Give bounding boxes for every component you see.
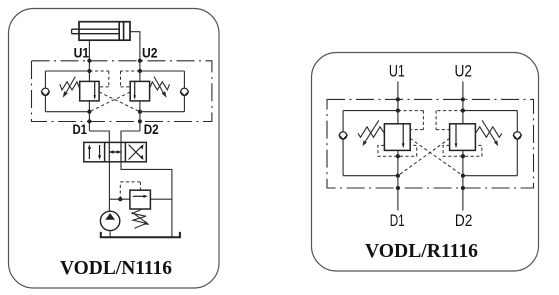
valve block dash-dot boundary right (327, 99, 534, 188)
wire cylinder cap to U2 (130, 32, 140, 61)
check valve CV1 (41, 88, 50, 96)
wire D2 to valve port B (121, 131, 140, 142)
junction dots left diagram (87, 59, 142, 124)
valve V2 spring (150, 82, 170, 90)
DV1 left cell up arrow (88, 144, 91, 159)
svg-text:D2: D2 (455, 212, 473, 230)
DV1 centre cell bar (109, 142, 121, 161)
check-valve loop bottom rail right (343, 175, 398, 177)
wire P branch to relief valve (109, 198, 129, 200)
valve V1 pilot line dashed (89, 71, 108, 87)
svg-text:U2: U2 (142, 44, 158, 60)
svg-text:U1: U1 (389, 62, 405, 80)
valve V4 drain box dashed (443, 145, 482, 156)
valve block dash-dot boundary left (32, 61, 212, 122)
wire U1 through block (88, 61, 90, 82)
check-valve loop top rail right (343, 110, 398, 112)
relief valve RV1 body (130, 190, 151, 209)
crossover dashed X right diagram (398, 138, 463, 175)
wire U1 through block right (397, 150, 399, 210)
wire U2 through block (139, 61, 141, 82)
cylinder C1 piston (119, 22, 123, 41)
junction dots right diagram (396, 97, 465, 190)
crossover pilot dashed X left diagram (89, 92, 139, 112)
relief valve RV1 adjust arrow (132, 212, 150, 225)
crossed pilot dashed right diagram (398, 111, 463, 130)
enclosure rounded border right (312, 53, 539, 272)
counterbalance valve V3 body (384, 124, 410, 151)
valve V4 flow arrow (455, 124, 458, 148)
wire U2 through block right (462, 150, 464, 210)
valve V4 adjust arrow (482, 120, 498, 146)
wire P line valve to pump (108, 162, 110, 212)
DV1 right cell crossed arrows (129, 144, 144, 160)
tank T1 (101, 232, 180, 237)
counterbalance valve V1 body (80, 81, 99, 101)
valve V2 pilot line dashed (121, 71, 140, 87)
counterbalance valve V2 body (130, 81, 149, 101)
check-valve loop bottom rail (45, 111, 89, 113)
wire T line valve to tank (121, 162, 172, 237)
relief valve RV1 spring (133, 209, 147, 228)
valve V3 spring (358, 127, 384, 138)
DV1 left cell down arrow (98, 145, 101, 160)
wire relief valve to T line (150, 198, 172, 200)
svg-text:U2: U2 (455, 62, 473, 80)
relief valve RV1 pilot junction (118, 197, 122, 201)
check-valve loop top rail (45, 70, 89, 72)
relief valve RV1 pilot dashed (120, 182, 140, 199)
check-valve loop left rail (44, 71, 46, 88)
check-valve loop right rail right (516, 111, 518, 132)
svg-text:D1: D1 (73, 121, 88, 137)
check valve CV3 (339, 132, 348, 140)
check-valve loop right rail (183, 71, 185, 88)
svg-text:D1: D1 (390, 212, 405, 230)
valve V3 flow arrow (402, 124, 405, 148)
directional valve DV1 body (84, 142, 147, 161)
check-valve loop left rail right (342, 111, 344, 132)
wire cylinder base to U1 (88, 40, 90, 61)
svg-text:VODL/N1116: VODL/N1116 (60, 257, 172, 279)
svg-text:VODL/R1116: VODL/R1116 (365, 240, 478, 262)
valve V2 flow arrow (133, 81, 136, 99)
valve V2 adjust arrow (154, 77, 167, 98)
valve V1 adjust arrow (63, 77, 76, 98)
svg-text:D2: D2 (144, 121, 159, 137)
cylinder C1 rod (72, 29, 120, 34)
pump P1 (100, 211, 119, 230)
check valve CV2 (180, 88, 189, 96)
valve V1 flow arrow (93, 81, 96, 99)
wire D1 to valve port A (89, 131, 109, 142)
valve V4 spring (475, 127, 501, 138)
check valve CV4 (513, 132, 522, 140)
valve V3 adjust arrow (363, 120, 379, 146)
valve V3 drain box dashed (378, 145, 417, 156)
svg-text:U1: U1 (74, 44, 90, 60)
relief valve RV1 flow arrow (133, 195, 148, 198)
cylinder C1 body (79, 22, 130, 41)
valve V1 spring (60, 82, 80, 90)
counterbalance valve V4 body (450, 124, 476, 151)
wire pump to tank (109, 230, 111, 237)
enclosure rounded border left (9, 9, 220, 289)
wire U1 stem (397, 82, 399, 124)
wire U2 stem (462, 82, 464, 124)
